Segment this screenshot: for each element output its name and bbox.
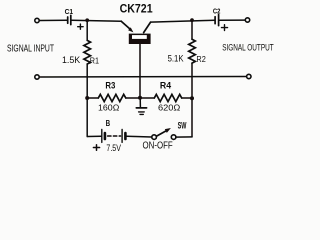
svg-text:7.5V: 7.5V bbox=[106, 143, 121, 153]
svg-text:CK721: CK721 bbox=[120, 2, 153, 16]
svg-text:620Ω: 620Ω bbox=[158, 103, 181, 113]
svg-text:1.5K: 1.5K bbox=[62, 54, 81, 65]
svg-text:SIGNAL INPUT: SIGNAL INPUT bbox=[7, 44, 54, 55]
svg-text:R3: R3 bbox=[105, 81, 115, 91]
svg-text:C1: C1 bbox=[65, 9, 74, 16]
svg-text:R4: R4 bbox=[160, 81, 171, 91]
svg-text:R2: R2 bbox=[196, 54, 206, 64]
svg-text:ON-OFF: ON-OFF bbox=[143, 141, 173, 152]
svg-text:C2: C2 bbox=[213, 8, 221, 15]
svg-text:SW: SW bbox=[178, 121, 187, 131]
svg-text:R1: R1 bbox=[90, 55, 100, 65]
svg-text:5.1K: 5.1K bbox=[168, 53, 184, 63]
svg-text:160Ω: 160Ω bbox=[98, 102, 120, 112]
svg-text:B: B bbox=[106, 118, 111, 128]
svg-text:SIGNAL OUTPUT: SIGNAL OUTPUT bbox=[222, 43, 274, 53]
